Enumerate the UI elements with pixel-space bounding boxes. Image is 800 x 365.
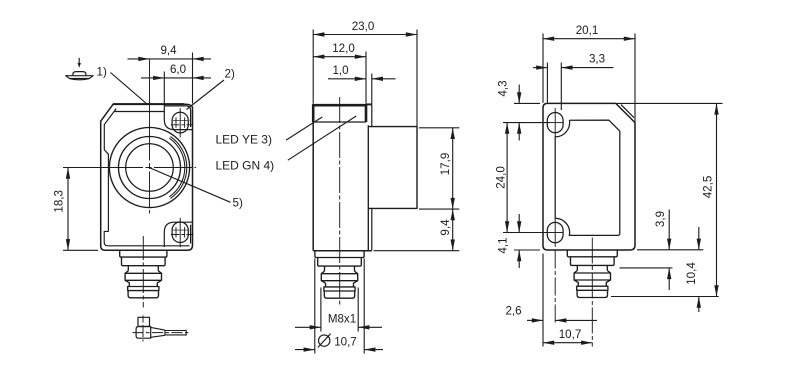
- svg-text:M8x1: M8x1: [328, 313, 356, 326]
- dim 24.0 arrows: [505, 123, 509, 134]
- front top face edge: [113, 103, 184, 105]
- rear connector centerline: [591, 238, 593, 347]
- svg-text:3,9: 3,9: [654, 211, 667, 227]
- ext 3.3 hole line: [560, 63, 562, 111]
- svg-text:24,0: 24,0: [495, 166, 508, 189]
- icon centerline: [133, 332, 191, 334]
- teach button icon: [73, 72, 86, 76]
- dim 3.9: [668, 210, 670, 250]
- svg-text:20,1: 20,1: [576, 24, 599, 37]
- svg-text:4,3: 4,3: [497, 80, 510, 96]
- ext dia right: [363, 259, 365, 354]
- leader LED YE 3): [286, 117, 322, 140]
- ext line right edge front: [192, 53, 194, 104]
- side view front part outline: [312, 104, 314, 251]
- svg-text:42,5: 42,5: [702, 176, 715, 199]
- ext dia left: [314, 259, 316, 354]
- svg-text:23,0: 23,0: [352, 20, 375, 33]
- dim 4.1: [518, 214, 520, 233]
- lens collar arc outer: [170, 137, 186, 199]
- ext bottom hole left: [503, 232, 550, 234]
- ext rear left edge down: [542, 254, 544, 347]
- ext body top left: [514, 102, 540, 104]
- dim 23.0 arrows: [313, 32, 324, 36]
- svg-text:10,7: 10,7: [559, 328, 582, 341]
- side view connector block: [368, 127, 417, 209]
- bottom mounting boss front: [164, 222, 192, 247]
- dim 9.4v line: [452, 209, 454, 251]
- lens collar arc inner: [169, 138, 185, 197]
- dim 9.4 arrows: [138, 57, 149, 61]
- svg-text:1,0: 1,0: [332, 64, 348, 77]
- dim 42.5 line: [716, 103, 718, 296]
- dim 20.1 arrows: [543, 37, 554, 41]
- svg-text:2): 2): [225, 68, 235, 81]
- svg-text:6,0: 6,0: [170, 63, 186, 76]
- leader LED GN 4): [288, 116, 356, 160]
- dim dia 10.7: [295, 349, 315, 351]
- lens outer circle: [109, 127, 189, 207]
- dim 18.3 line: [67, 168, 69, 251]
- lens inner circle: [126, 144, 174, 192]
- svg-text:10,4: 10,4: [685, 262, 698, 285]
- angled connector icon: [138, 317, 150, 326]
- side view sensing cap (thick): [313, 105, 366, 122]
- svg-text:10,7: 10,7: [334, 335, 357, 348]
- dim 23.0 line: [313, 34, 417, 36]
- svg-text:2,6: 2,6: [505, 304, 521, 317]
- ext body bottom left: [514, 249, 540, 251]
- leader 5): [150, 168, 231, 202]
- dim M8x1: [295, 326, 321, 328]
- svg-text:9,4: 9,4: [439, 219, 452, 236]
- ext 20.1 left: [542, 34, 544, 103]
- bottom slot hole front: [172, 222, 188, 243]
- rear view body outline: [543, 103, 635, 250]
- front view body outline: [101, 104, 193, 250]
- ext 23 right: [416, 30, 418, 127]
- dim 18.3 arrows: [66, 168, 70, 179]
- icon vertical centerline: [142, 316, 144, 342]
- dim 9.4 line: [128, 58, 212, 60]
- ext 17.9 top: [419, 127, 459, 129]
- dim 17.9 arrows: [451, 128, 455, 139]
- front connector centerline: [142, 236, 144, 308]
- rear top slot hole: [547, 113, 563, 133]
- svg-text:LED YE 3): LED YE 3): [216, 132, 272, 146]
- ext line body bottom left: [63, 249, 98, 251]
- ext plug bottom right: [611, 296, 719, 298]
- dim dia 10.7 text: [319, 335, 330, 346]
- dim 6.0 line: [141, 77, 211, 79]
- lens horizontal centerline: [63, 167, 196, 169]
- ext 9.4 bottom: [374, 250, 460, 252]
- dim 1.0: [328, 78, 366, 80]
- front inner chamfer and left shell line: [104, 109, 189, 246]
- dim 6.0 arrows: [153, 76, 164, 80]
- ext 23 left: [312, 30, 314, 104]
- ext 12 right: [365, 52, 367, 104]
- lens vertical centerline: [149, 60, 151, 214]
- ext neck right: [620, 267, 673, 269]
- ext body top right: [617, 102, 723, 104]
- ext rear hole centerline: [554, 251, 556, 325]
- ext M8 right: [357, 288, 359, 332]
- svg-text:12,0: 12,0: [332, 42, 355, 55]
- dim 10.4: [698, 227, 700, 250]
- rear inner panel: [555, 120, 620, 235]
- front inner top line: [114, 111, 164, 113]
- side view centerline: [339, 97, 341, 307]
- top mounting boss front: [164, 105, 192, 129]
- dim 9.4v arrows: [451, 209, 455, 220]
- svg-text:4,1: 4,1: [497, 237, 510, 253]
- teach icon arrow: [78, 58, 80, 64]
- leader 2): [187, 80, 225, 110]
- ext M8 left: [320, 288, 322, 332]
- top slot hole front: [172, 112, 188, 133]
- rear M8 connector plug: [567, 250, 617, 257]
- side M8 connector plug: [315, 251, 364, 258]
- lens middle circle: [119, 137, 181, 199]
- ext top hole left: [503, 122, 550, 124]
- dim 12.0 arrows: [313, 55, 324, 59]
- svg-text:LED GN 4): LED GN 4): [216, 159, 275, 173]
- front M8 connector plug: [120, 250, 167, 257]
- dim 10.7 arrows: [543, 341, 554, 345]
- svg-text:18,3: 18,3: [53, 190, 66, 213]
- dim 4.3: [518, 85, 520, 104]
- ext line boss left front: [163, 72, 165, 106]
- ext body bottom right: [637, 249, 703, 251]
- rear chamfer inner line: [621, 105, 634, 118]
- side 1.0 step strip: [371, 104, 373, 126]
- dim 24.0 line: [506, 123, 508, 233]
- svg-text:1): 1): [97, 66, 107, 79]
- dim 12.0 line: [313, 56, 366, 58]
- dim 10.7 line: [543, 342, 592, 344]
- leader 1): [111, 73, 148, 105]
- ext 1.0 right: [371, 74, 373, 105]
- svg-text:9,4: 9,4: [160, 44, 177, 57]
- dim 17.9 line: [452, 128, 454, 209]
- svg-text:17,9: 17,9: [439, 153, 452, 176]
- svg-text:5): 5): [233, 197, 243, 210]
- dim 2.6: [527, 319, 543, 321]
- ext 20.1 right: [634, 34, 636, 123]
- svg-text:3,3: 3,3: [589, 53, 605, 66]
- dim 3.3: [533, 67, 547, 69]
- ext 17.9 bottom: [419, 208, 459, 210]
- rear bottom slot hole: [547, 222, 563, 242]
- dim 20.1 line: [543, 38, 635, 40]
- dim 42.5 arrows: [714, 103, 718, 114]
